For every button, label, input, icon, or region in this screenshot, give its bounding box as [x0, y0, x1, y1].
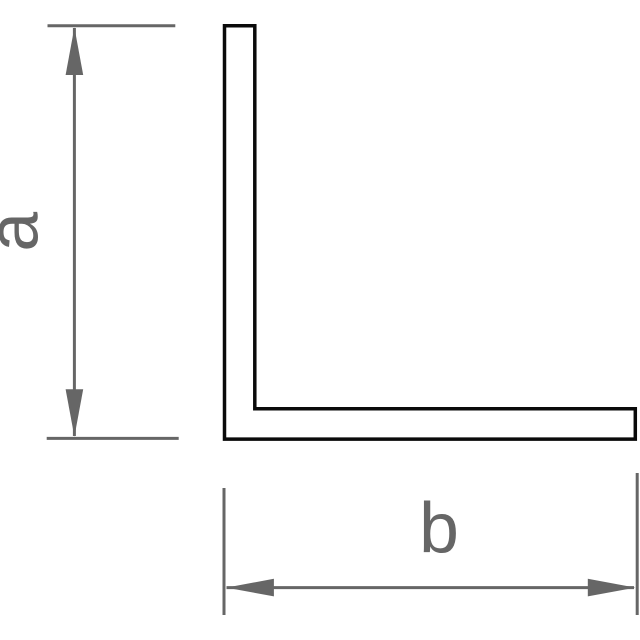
- svg-text:a: a: [0, 212, 54, 252]
- svg-text:b: b: [419, 489, 459, 569]
